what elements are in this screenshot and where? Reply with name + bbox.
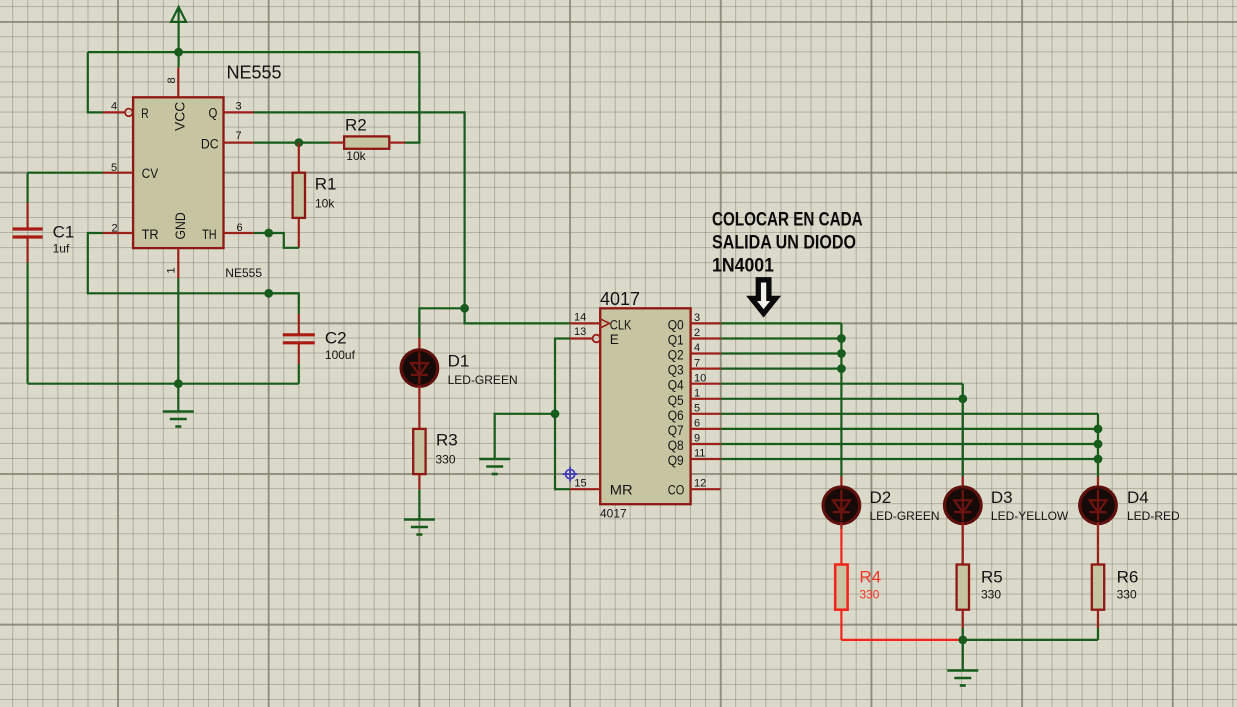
svg-text:1N4001: 1N4001: [712, 254, 774, 276]
svg-text:Q4: Q4: [668, 378, 684, 393]
svg-text:Q: Q: [209, 106, 218, 121]
svg-text:14: 14: [574, 312, 586, 324]
svg-text:1: 1: [694, 388, 700, 400]
svg-text:D1: D1: [448, 352, 470, 371]
svg-text:13: 13: [574, 326, 586, 338]
svg-text:D3: D3: [991, 488, 1013, 507]
svg-text:11: 11: [694, 448, 705, 460]
svg-text:10k: 10k: [315, 197, 335, 211]
svg-text:R4: R4: [859, 568, 881, 587]
svg-text:LED-GREEN: LED-GREEN: [870, 509, 940, 523]
svg-text:4017: 4017: [600, 289, 640, 309]
svg-text:4: 4: [694, 342, 700, 354]
svg-text:R6: R6: [1117, 568, 1139, 587]
svg-text:6: 6: [694, 418, 700, 430]
svg-text:100uf: 100uf: [325, 348, 356, 362]
svg-text:4017: 4017: [600, 507, 627, 521]
svg-text:Q3: Q3: [668, 363, 684, 378]
svg-text:COLOCAR EN CADA: COLOCAR EN CADA: [712, 209, 863, 231]
svg-text:TR: TR: [142, 227, 159, 242]
svg-text:C2: C2: [325, 329, 347, 348]
svg-text:VCC: VCC: [172, 101, 187, 131]
svg-text:2: 2: [112, 223, 118, 235]
svg-text:CV: CV: [142, 166, 159, 181]
svg-text:6: 6: [237, 222, 243, 234]
svg-text:Q8: Q8: [668, 438, 684, 453]
svg-text:9: 9: [694, 433, 700, 445]
svg-text:GND: GND: [173, 212, 188, 240]
svg-text:R2: R2: [345, 116, 367, 135]
svg-text:4: 4: [111, 101, 117, 113]
svg-text:10k: 10k: [346, 149, 366, 163]
svg-text:10: 10: [694, 372, 706, 384]
svg-text:R5: R5: [981, 568, 1003, 587]
svg-text:Q5: Q5: [668, 393, 684, 408]
svg-text:1uf: 1uf: [53, 241, 70, 255]
svg-text:D2: D2: [870, 488, 892, 507]
svg-text:R3: R3: [436, 431, 458, 450]
svg-text:Q2: Q2: [668, 348, 684, 363]
svg-text:3: 3: [694, 312, 700, 324]
svg-text:SALIDA UN DIODO: SALIDA UN DIODO: [712, 231, 856, 253]
svg-text:NE555: NE555: [227, 63, 282, 83]
svg-text:LED-YELLOW: LED-YELLOW: [991, 509, 1069, 523]
svg-text:330: 330: [1117, 587, 1137, 601]
svg-text:MR: MR: [610, 483, 633, 498]
svg-text:15: 15: [574, 478, 586, 490]
svg-text:D4: D4: [1127, 488, 1149, 507]
svg-text:E: E: [610, 332, 619, 347]
svg-text:TH: TH: [202, 227, 217, 242]
svg-text:2: 2: [694, 327, 700, 339]
svg-text:1: 1: [166, 267, 178, 273]
svg-text:NE555: NE555: [225, 266, 262, 280]
svg-text:12: 12: [694, 478, 706, 490]
svg-text:8: 8: [166, 77, 178, 83]
svg-text:Q7: Q7: [668, 423, 684, 438]
svg-text:Q9: Q9: [668, 453, 684, 468]
svg-text:3: 3: [236, 101, 242, 113]
svg-text:C1: C1: [53, 223, 75, 242]
svg-text:CLK: CLK: [610, 317, 632, 332]
svg-text:CO: CO: [668, 483, 685, 498]
svg-text:LED-GREEN: LED-GREEN: [448, 373, 518, 387]
svg-text:7: 7: [236, 130, 242, 142]
svg-text:R1: R1: [315, 175, 337, 194]
svg-text:330: 330: [981, 587, 1001, 601]
svg-text:7: 7: [694, 357, 700, 369]
svg-text:R: R: [141, 106, 149, 121]
svg-text:LED-RED: LED-RED: [1127, 509, 1180, 523]
svg-text:DC: DC: [201, 137, 219, 152]
svg-text:5: 5: [111, 162, 117, 174]
svg-text:330: 330: [859, 587, 879, 601]
svg-text:Q0: Q0: [668, 317, 684, 332]
svg-text:5: 5: [694, 403, 700, 415]
svg-text:330: 330: [436, 452, 456, 466]
svg-text:Q6: Q6: [668, 408, 684, 423]
svg-text:Q1: Q1: [668, 333, 684, 348]
